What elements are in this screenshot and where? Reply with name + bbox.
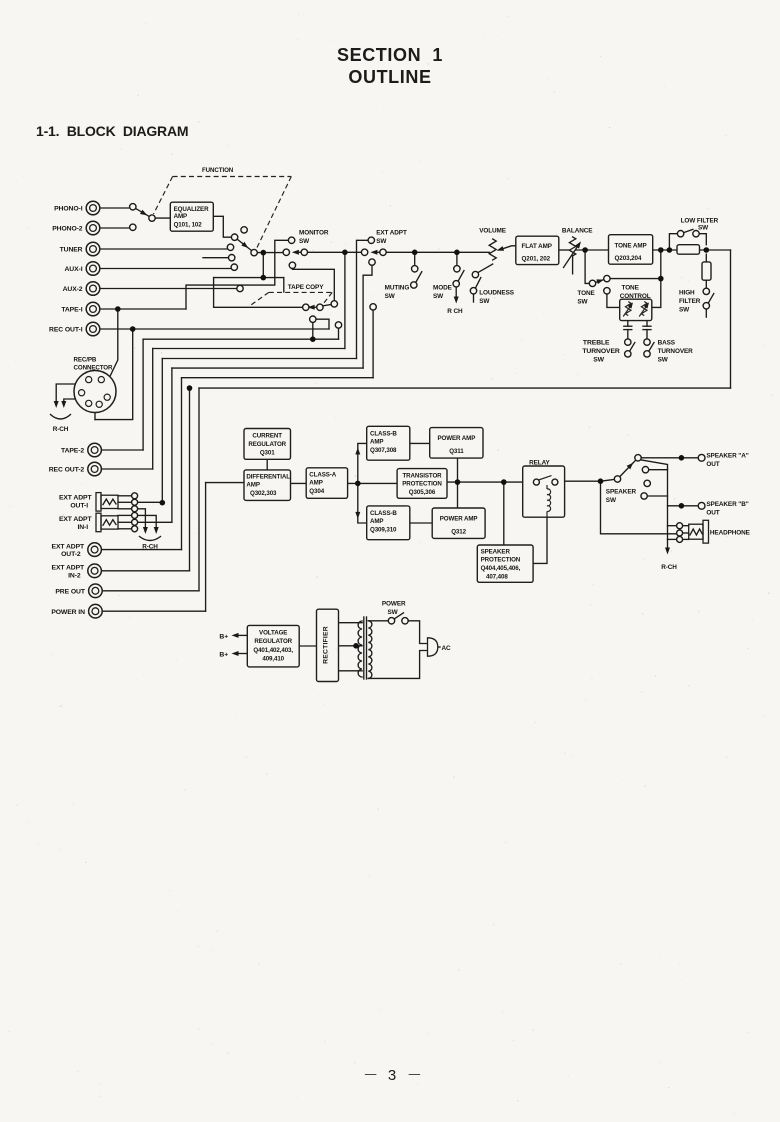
- svg-text:Q101, 102: Q101, 102: [174, 222, 203, 229]
- svg-text:R-CH: R-CH: [53, 426, 69, 433]
- svg-text:FUNCTION: FUNCTION: [202, 167, 234, 174]
- svg-text:BASS: BASS: [658, 340, 676, 347]
- svg-text:SW: SW: [658, 357, 669, 364]
- svg-text:AMP: AMP: [309, 480, 322, 487]
- svg-text:SW: SW: [388, 609, 399, 616]
- svg-text:FILTER: FILTER: [679, 298, 701, 305]
- svg-text:Q203,204: Q203,204: [615, 255, 642, 262]
- svg-text:Q404,405,406,: Q404,405,406,: [481, 565, 521, 572]
- svg-text:Q305,306: Q305,306: [409, 489, 436, 496]
- svg-text:MONITOR: MONITOR: [299, 230, 329, 237]
- svg-text:PROTECTION: PROTECTION: [481, 557, 521, 564]
- svg-text:SPEAKER: SPEAKER: [481, 549, 511, 556]
- svg-text:REC OUT-2: REC OUT-2: [49, 467, 85, 474]
- svg-text:HIGH: HIGH: [679, 290, 695, 297]
- svg-text:SW: SW: [376, 238, 387, 245]
- svg-text:TURNOVER: TURNOVER: [658, 348, 694, 355]
- svg-text:TREBLE: TREBLE: [583, 340, 610, 347]
- svg-text:R CH: R CH: [447, 308, 463, 315]
- svg-text:SW: SW: [299, 238, 310, 245]
- svg-text:PHONO-2: PHONO-2: [52, 226, 83, 233]
- svg-text:SW: SW: [479, 298, 490, 305]
- svg-text:Q302,303: Q302,303: [250, 490, 277, 497]
- svg-text:OUT-2: OUT-2: [61, 551, 81, 558]
- svg-text:REC OUT-I: REC OUT-I: [49, 327, 83, 334]
- svg-text:SW: SW: [577, 299, 588, 306]
- svg-text:TAPE-I: TAPE-I: [61, 307, 82, 314]
- svg-text:R-CH: R-CH: [142, 544, 158, 551]
- svg-text:IN-2: IN-2: [68, 572, 81, 579]
- svg-text:MODE: MODE: [433, 285, 453, 292]
- svg-text:TAPE COPY: TAPE COPY: [288, 284, 324, 291]
- svg-text:AMP: AMP: [370, 438, 383, 445]
- svg-text:PROTECTION: PROTECTION: [402, 480, 442, 487]
- svg-text:FLAT AMP: FLAT AMP: [522, 243, 552, 250]
- svg-text:SPEAKER "B": SPEAKER "B": [706, 501, 748, 508]
- svg-text:DIFFERENTIAL: DIFFERENTIAL: [246, 474, 290, 481]
- svg-text:POWER: POWER: [382, 601, 406, 608]
- svg-text:R-CH: R-CH: [661, 564, 677, 571]
- svg-text:Q304: Q304: [309, 488, 324, 495]
- svg-text:TRANSISTOR: TRANSISTOR: [402, 472, 442, 479]
- svg-text:REC/PB: REC/PB: [74, 357, 97, 364]
- svg-text:SPEAKER "A": SPEAKER "A": [706, 453, 748, 460]
- svg-text:409,410: 409,410: [262, 655, 284, 662]
- svg-text:TONE AMP: TONE AMP: [615, 243, 647, 250]
- svg-text:Q401,402,403,: Q401,402,403,: [253, 647, 293, 654]
- svg-text:TAPE-2: TAPE-2: [61, 448, 84, 455]
- svg-text:SW: SW: [433, 293, 444, 300]
- svg-text:AUX-I: AUX-I: [64, 266, 82, 273]
- svg-text:POWER AMP: POWER AMP: [438, 435, 476, 442]
- svg-text:EXT ADPT: EXT ADPT: [52, 565, 86, 572]
- svg-text:CLASS-B: CLASS-B: [370, 510, 397, 517]
- svg-text:IN-I: IN-I: [77, 524, 88, 531]
- svg-text:OUT: OUT: [706, 461, 719, 468]
- svg-text:LOUDNESS: LOUDNESS: [479, 290, 515, 297]
- svg-text:AMP: AMP: [246, 482, 259, 489]
- svg-text:REGULATOR: REGULATOR: [254, 638, 292, 645]
- svg-text:CLASS-A: CLASS-A: [309, 472, 336, 479]
- svg-text:TURNOVER: TURNOVER: [582, 348, 620, 355]
- svg-text:RELAY: RELAY: [529, 460, 550, 467]
- svg-text:OUT-I: OUT-I: [70, 503, 88, 510]
- svg-text:CLASS-B: CLASS-B: [370, 430, 397, 437]
- svg-text:OUT: OUT: [706, 509, 719, 516]
- svg-text:Q312: Q312: [451, 529, 466, 536]
- svg-text:EXT ADPT: EXT ADPT: [376, 230, 407, 237]
- svg-text:TUNER: TUNER: [60, 247, 83, 254]
- svg-text:AMP: AMP: [370, 518, 383, 525]
- svg-text:SW: SW: [606, 497, 617, 504]
- svg-text:RECTIFIER: RECTIFIER: [323, 626, 330, 664]
- svg-text:CURRENT: CURRENT: [252, 433, 282, 440]
- svg-text:SPEAKER: SPEAKER: [606, 489, 637, 496]
- svg-text:AMP: AMP: [174, 213, 187, 220]
- svg-text:EQUALIZER: EQUALIZER: [174, 206, 209, 213]
- svg-text:BALANCE: BALANCE: [562, 228, 593, 235]
- svg-text:EXT ADPT: EXT ADPT: [59, 516, 93, 523]
- svg-text:SW: SW: [698, 225, 709, 232]
- svg-text:POWER IN: POWER IN: [51, 609, 85, 616]
- svg-text:Q307,308: Q307,308: [370, 447, 397, 454]
- svg-text:EXT ADPT: EXT ADPT: [59, 495, 93, 502]
- svg-text:Q301: Q301: [260, 449, 275, 456]
- svg-text:VOLUME: VOLUME: [479, 228, 507, 235]
- svg-text:SW: SW: [385, 293, 396, 300]
- svg-text:CONNECTOR: CONNECTOR: [74, 365, 113, 372]
- svg-text:407,408: 407,408: [486, 574, 508, 581]
- svg-text:REGULATOR: REGULATOR: [248, 441, 286, 448]
- svg-text:PHONO-I: PHONO-I: [54, 206, 83, 213]
- svg-text:VOLTAGE: VOLTAGE: [259, 630, 287, 637]
- svg-text:MUTING: MUTING: [385, 285, 410, 292]
- svg-text:HEADPHONE: HEADPHONE: [710, 529, 751, 536]
- svg-text:Q311: Q311: [449, 448, 464, 455]
- svg-text:AUX-2: AUX-2: [63, 286, 83, 293]
- svg-text:TONE: TONE: [577, 290, 595, 297]
- svg-text:AC: AC: [442, 645, 452, 652]
- svg-text:Q201, 202: Q201, 202: [522, 256, 551, 263]
- svg-text:SW: SW: [593, 357, 604, 364]
- svg-text:CONTROL: CONTROL: [620, 293, 651, 300]
- svg-text:B+: B+: [219, 651, 228, 658]
- svg-text:LOW FILTER: LOW FILTER: [681, 218, 719, 225]
- svg-text:PRE OUT: PRE OUT: [55, 588, 85, 595]
- svg-text:POWER AMP: POWER AMP: [440, 516, 478, 523]
- svg-text:B+: B+: [219, 633, 228, 640]
- svg-text:Q309,310: Q309,310: [370, 526, 397, 533]
- svg-text:SW: SW: [679, 307, 690, 314]
- svg-text:EXT ADPT: EXT ADPT: [52, 543, 86, 550]
- svg-text:TONE: TONE: [622, 285, 640, 292]
